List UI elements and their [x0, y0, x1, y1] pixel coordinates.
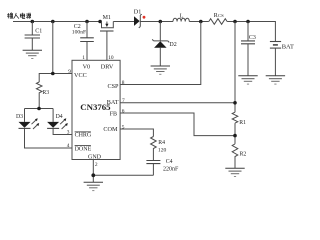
wire M1 drain to D1 [113, 21, 134, 23]
wire BAT sense [120, 22, 235, 113]
inductor L [173, 13, 189, 21]
pin 9 label / wire VCC pin [39, 69, 72, 82]
transistor M1 [100, 15, 114, 61]
svg-text:M1: M1 [103, 15, 111, 21]
svg-text:BAT: BAT [282, 44, 294, 51]
wire VCC drop [52, 22, 54, 74]
svg-text:6: 6 [122, 108, 125, 114]
junction GND node [91, 173, 95, 177]
capacitor C1 [25, 22, 43, 51]
capacitor C2 [72, 22, 94, 61]
svg-text:C4: C4 [166, 159, 173, 165]
resistor R4 [151, 137, 167, 161]
junction BAT/R1 [233, 101, 237, 105]
wire L to Rcs [189, 21, 209, 23]
svg-text:C1: C1 [35, 28, 42, 34]
wire CSP sense [120, 22, 201, 85]
label input-power 输入电源 [7, 13, 31, 19]
ground (R2) [225, 168, 244, 176]
ground (GND) [84, 182, 103, 190]
svg-text:D2: D2 [169, 42, 176, 48]
svg-text:R4: R4 [158, 140, 165, 146]
svg-text:R1: R1 [239, 120, 246, 126]
junction LED bus [37, 107, 41, 111]
junction VCC line [51, 72, 55, 76]
svg-text:DONE: DONE [75, 146, 92, 152]
junction C1/rail [31, 20, 35, 24]
resistor R1 [232, 112, 246, 126]
LED D3 [16, 109, 72, 149]
svg-text:3: 3 [67, 130, 70, 136]
svg-text:L: L [180, 13, 184, 19]
svg-text:CHRG: CHRG [75, 133, 92, 139]
svg-text:CN3765: CN3765 [80, 102, 111, 112]
svg-text:CSP: CSP [107, 83, 119, 90]
junction FB/R1/R2 [233, 134, 237, 138]
junction CSP/rail [199, 20, 203, 24]
capacitor C3 [241, 22, 256, 76]
svg-text:7: 7 [122, 98, 125, 104]
svg-text:2: 2 [95, 162, 98, 168]
svg-text:DRV: DRV [101, 64, 114, 71]
svg-text:9: 9 [68, 69, 71, 75]
svg-text:120: 120 [158, 148, 167, 154]
svg-text:10: 10 [108, 55, 114, 61]
wire FB [120, 113, 235, 136]
battery BAT [270, 42, 294, 76]
wire C4 to GND node [93, 174, 153, 176]
diode D1 [134, 8, 173, 28]
svg-text:4: 4 [67, 143, 70, 149]
svg-text:220nF: 220nF [163, 167, 179, 173]
resistor R2 [232, 144, 246, 168]
junction M1/rail [98, 20, 102, 24]
junction BATsense/rail [233, 20, 237, 24]
capacitor C4 [146, 159, 179, 175]
svg-text:100nF: 100nF [72, 30, 86, 36]
wire GND pin [92, 160, 94, 183]
ground (C3) [238, 76, 257, 84]
ground (BAT) [266, 76, 285, 84]
svg-text:D1: D1 [134, 8, 142, 15]
junction C2/rail [85, 20, 89, 24]
svg-text:COM: COM [103, 126, 118, 133]
svg-text:R2: R2 [240, 151, 247, 157]
red marker dot [143, 16, 146, 19]
diode D2 [152, 22, 177, 67]
LED D4 [47, 109, 72, 135]
junction C3/rail [246, 20, 250, 24]
svg-text:GND: GND [88, 155, 102, 161]
wire COM [120, 129, 153, 137]
svg-text:D3: D3 [16, 114, 23, 120]
ground (D2) [151, 66, 170, 74]
wire top input rail [13, 21, 102, 23]
svg-text:8: 8 [122, 80, 125, 86]
svg-text:R3: R3 [42, 90, 49, 96]
junction VCC/rail [51, 20, 55, 24]
op-amp U1 CN3765 IC box [72, 60, 120, 160]
svg-text:FB: FB [110, 112, 117, 118]
svg-text:5: 5 [122, 124, 125, 130]
resistor R3 [36, 82, 49, 109]
svg-text:CS: CS [218, 13, 224, 18]
wire R1 to R2 [234, 123, 236, 144]
ground (C1) [23, 50, 42, 58]
svg-text:D4: D4 [56, 114, 63, 120]
wire Rcs to battery [227, 22, 275, 42]
wire LED bus [25, 108, 54, 110]
svg-text:C3: C3 [249, 35, 256, 41]
svg-text:V0: V0 [83, 64, 91, 71]
svg-text:1: 1 [82, 55, 85, 61]
svg-text:VCC: VCC [74, 72, 87, 79]
resistor Rcs [209, 13, 227, 24]
junction D2/rail [159, 20, 163, 24]
